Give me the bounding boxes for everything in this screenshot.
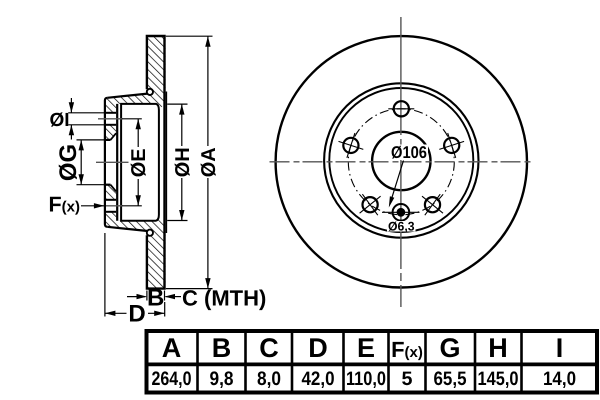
flange right face line: [116, 104, 118, 221]
svg-text:9,8: 9,8: [210, 368, 234, 390]
flange solid bottom: [105, 212, 116, 227]
small hole 6.3: [393, 204, 410, 221]
svg-text:Ø106: Ø106: [391, 143, 427, 162]
centerline bolt hole top (gray): [98, 118, 123, 120]
dim H ext lines: [167, 103, 187, 105]
svg-text:F(x): F(x): [49, 193, 80, 217]
svg-text:264,0: 264,0: [152, 368, 192, 390]
hat outer circle: [324, 83, 478, 237]
fillet groove top: [147, 89, 153, 95]
dim I arrows: [70, 98, 72, 113]
bolt hole lower-left: [363, 197, 378, 212]
vertical centerline: [400, 17, 402, 307]
disc band outline: [147, 36, 165, 289]
svg-text:5: 5: [402, 368, 413, 390]
fillet groove bottom: [147, 230, 153, 236]
dim B ext lines: [146, 291, 148, 301]
svg-text:14,0: 14,0: [543, 368, 576, 390]
bolt hole upper-left: [343, 138, 358, 153]
svg-text:F(x): F(x): [391, 337, 423, 362]
dim A line + arrows: [207, 36, 209, 146]
svg-text:C (MTH): C (MTH): [182, 286, 266, 311]
svg-text:D: D: [128, 301, 145, 328]
label diameter 6,3: [387, 221, 416, 232]
svg-text:A: A: [162, 333, 182, 363]
svg-text:B: B: [212, 333, 232, 363]
disc band bottom half fill: [147, 215, 166, 289]
flange left face: [105, 98, 107, 227]
svg-text:65,5: 65,5: [434, 368, 467, 390]
center bore circle: [372, 132, 430, 190]
dim D line + arrows: [105, 312, 127, 314]
bore chamfer diagonals: [111, 133, 117, 140]
svg-text:42,0: 42,0: [302, 368, 335, 390]
dim E ext lines: [122, 118, 142, 120]
svg-text:ØI: ØI: [49, 110, 69, 131]
svg-text:B: B: [147, 285, 164, 312]
bolt hole lower-right: [425, 197, 440, 212]
bolt hole bottom edges: [105, 199, 116, 201]
svg-text:ØE: ØE: [128, 148, 150, 177]
svg-text:Ø6,3: Ø6,3: [388, 220, 415, 234]
label diameter 106: [390, 145, 428, 161]
horizontal centerline: [270, 161, 533, 163]
bore edges: [105, 139, 111, 141]
dim H line + arrows: [181, 104, 183, 146]
plate top face: [107, 94, 147, 98]
dim A ext lines: [166, 35, 213, 37]
svg-text:C: C: [259, 333, 279, 363]
dim E line + arrows: [137, 119, 139, 147]
svg-text:G: G: [439, 333, 460, 363]
svg-text:110,0: 110,0: [346, 368, 386, 390]
leader 6.3: [391, 161, 404, 202]
svg-text:D: D: [308, 333, 328, 363]
svg-text:H: H: [488, 333, 508, 363]
bolt hole 12 o'clock: [394, 101, 409, 116]
bolt circle (dash-dot): [348, 109, 454, 215]
hat inner circle: [329, 88, 473, 232]
flange block between holes top: [105, 125, 116, 140]
svg-text:ØG: ØG: [55, 144, 82, 181]
main axis centerline left view (gray): [96, 161, 129, 163]
hat interior boundary: [121, 104, 159, 221]
svg-text:145,0: 145,0: [478, 368, 519, 390]
plate bottom face: [107, 227, 147, 231]
disc band top half fill: [147, 36, 166, 110]
svg-text:8,0: 8,0: [257, 368, 281, 390]
thin edge line right of drum: [165, 92, 167, 234]
dim I ext lines: [68, 112, 105, 114]
svg-text:ØH: ØH: [172, 147, 194, 177]
bolt hole right: [444, 138, 459, 153]
bottom plate fill: [105, 221, 150, 232]
svg-text:ØA: ØA: [198, 147, 220, 177]
svg-text:I: I: [556, 333, 564, 363]
centerline bolt hole bottom (gray): [106, 205, 123, 207]
dim F(x) leader arrow: [81, 205, 104, 207]
dim D ext lines: [104, 233, 106, 317]
dim B arrows: [127, 296, 146, 298]
dim G line + arrows: [80, 140, 82, 185]
flange solid top: [105, 98, 116, 112]
dim G ext lines: [77, 139, 105, 141]
flange block between holes bottom: [105, 185, 116, 200]
top plate fill: [105, 93, 150, 104]
outer circle: [276, 36, 527, 287]
bolt hole top edges: [105, 112, 116, 114]
svg-text:E: E: [357, 333, 375, 363]
